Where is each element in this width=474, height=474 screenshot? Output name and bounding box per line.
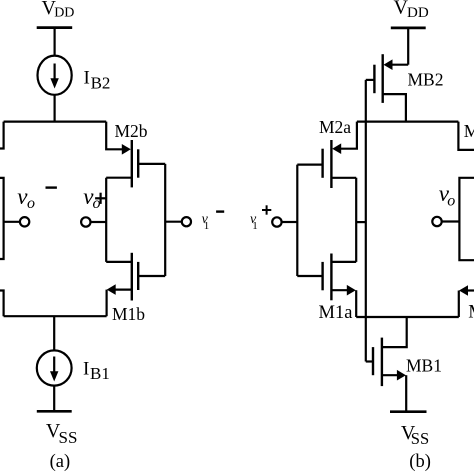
input gate rail (b) <box>296 165 298 276</box>
wire bottom-left corner to cut-off transistor (a) <box>0 291 4 317</box>
svg-text:I: I <box>83 359 89 380</box>
svg-text:(a): (a) <box>50 452 71 472</box>
label vo- <box>17 184 57 212</box>
label VSS (b) <box>401 422 429 448</box>
bottom bus (b) <box>356 316 459 318</box>
label vo+ <box>83 184 106 212</box>
transistor M2a gate plate <box>321 149 323 178</box>
transistor M1b gate plate <box>137 262 139 290</box>
wire bus corner to M2b gate-arrow <box>106 122 123 150</box>
wire M1b gate to output node <box>138 275 165 277</box>
arrowhead into M2a (PMOS source mark) <box>332 143 341 154</box>
right mid rail with leads to cut-off stack (b) <box>459 178 474 260</box>
wire M1a source corner to bottom bus (b) <box>355 290 357 317</box>
svg-text:(b): (b) <box>409 452 431 472</box>
wire cut-off right source with NMOS arrow (b) <box>464 289 474 291</box>
transistor M1a gate plate <box>321 262 323 290</box>
current source IB2 <box>38 56 72 95</box>
svg-text:DD: DD <box>407 5 429 21</box>
transistor M2b channel plate <box>131 140 133 187</box>
wire bottom bus to IB1 <box>53 316 55 351</box>
central gate rail (b) <box>365 80 367 362</box>
wire MB1 gate to central rail <box>366 360 373 362</box>
terminal vo+ circle <box>81 217 90 226</box>
wire bus corner to M2a gate-arrow <box>340 122 357 149</box>
bottom bus (a) <box>4 315 107 317</box>
wire top bus corner to cut-off right transistor (b) <box>458 122 474 150</box>
label VDD (a) <box>42 0 75 21</box>
wire VDD to IB2 <box>53 28 55 57</box>
terminal vo output stub (b) <box>442 220 460 222</box>
svg-text:M: M <box>464 121 474 141</box>
svg-text:B2: B2 <box>91 73 111 92</box>
svg-text:o: o <box>447 193 455 210</box>
mid rail (b) <box>355 178 357 262</box>
wire M1b source with NMOS arrow <box>114 289 132 291</box>
svg-text:B1: B1 <box>90 364 110 383</box>
svg-text:1: 1 <box>252 220 258 232</box>
svg-text:M2a: M2a <box>319 117 351 137</box>
wire IB1 to VSS <box>53 386 55 412</box>
wire M1a gate to input rail <box>297 275 322 277</box>
label v1+ input (b) <box>250 205 271 232</box>
top bus (a) <box>4 120 107 122</box>
wire MB1 source to VSS <box>405 375 407 412</box>
mid rail (a) node vo+ <box>105 178 107 262</box>
terminal vo- stub <box>4 221 20 223</box>
wire right source corner to bottom bus (b) <box>458 291 460 318</box>
transistor MB2 channel plate <box>382 54 384 103</box>
wire M1a upper lead to mid rail (b) <box>331 261 356 263</box>
stub mid rail to central rail <box>356 221 366 223</box>
transistor M1a channel plate <box>330 254 332 301</box>
label VDD (b) <box>394 0 429 21</box>
svg-text:o: o <box>27 195 35 212</box>
svg-text:SS: SS <box>59 428 78 447</box>
wire M2b lower lead to mid rail <box>106 177 132 179</box>
label VSS (a) <box>46 420 78 447</box>
terminal v1- stub <box>165 221 182 223</box>
wire M1b upper lead to mid rail <box>106 261 132 263</box>
arrowhead into M2b (PMOS source mark) <box>122 144 131 155</box>
wire MB2 upper lead with PMOS arrow <box>391 64 408 66</box>
transistor M2a channel plate <box>330 140 332 188</box>
transistor MB1 gate plate <box>372 347 374 375</box>
wire M1b source corner to bottom bus <box>105 290 107 317</box>
svg-text:SS: SS <box>411 429 429 448</box>
transistor MB1 channel plate <box>381 338 383 387</box>
terminal vo- circle <box>20 217 29 226</box>
supply VSS bar (a) <box>37 410 72 413</box>
label v1- output (a) <box>202 212 225 232</box>
wire M2a gate to input rail <box>297 164 322 166</box>
svg-text:I: I <box>84 68 90 89</box>
wire M2a lower lead to mid rail (b) <box>331 177 356 179</box>
svg-text:MB1: MB1 <box>406 356 442 376</box>
top bus (b) <box>357 120 459 122</box>
wire bottom bus to MB1 drain <box>382 317 407 347</box>
wire VDD to MB2 <box>407 28 409 65</box>
transistor M1b channel plate <box>131 253 133 301</box>
wire M1a source with NMOS arrow <box>331 289 348 291</box>
wire M2b gate to output node <box>138 163 165 165</box>
supply VSS bar (b) <box>390 410 427 413</box>
terminal vo+ stub <box>91 221 106 223</box>
supply VDD bar (b) <box>391 27 426 30</box>
left cut-stack rail (a) <box>0 178 4 259</box>
svg-text:1: 1 <box>204 220 210 232</box>
wire MB2 lower lead to top bus (b) <box>383 94 406 122</box>
terminal v1+ stub <box>282 221 298 223</box>
current source IB1 <box>37 350 72 385</box>
svg-text:M: M <box>468 302 474 323</box>
label vo output (b) <box>439 181 456 210</box>
terminal v1- circle <box>182 217 191 226</box>
supply VDD bar (a) <box>37 26 72 29</box>
terminal v1+ circle <box>272 217 281 226</box>
output node vertical (a) <box>164 164 166 276</box>
svg-text:M1b: M1b <box>112 304 145 324</box>
wire MB2 gate to central rail <box>366 79 375 81</box>
transistor M2b gate plate <box>137 149 139 177</box>
label IB1 <box>83 359 110 384</box>
transistor MB2 gate plate <box>373 65 375 94</box>
svg-text:MB2: MB2 <box>408 70 444 90</box>
wire MB1 source with NMOS arrow <box>382 374 399 376</box>
wire IB2 to top bus (a) <box>53 95 55 122</box>
svg-text:M1a: M1a <box>319 303 353 323</box>
terminal vo output circle (b) <box>432 217 441 226</box>
svg-text:M2b: M2b <box>115 121 148 141</box>
svg-text:DD: DD <box>54 6 74 21</box>
wire top-left corner to cut-off transistor (a) <box>0 122 4 149</box>
label IB2 <box>84 68 111 93</box>
